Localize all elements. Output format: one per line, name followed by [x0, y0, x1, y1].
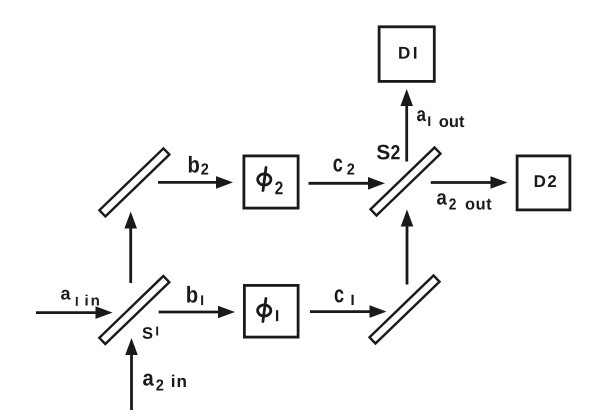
wire S1 to M1 vertical arrow	[124, 212, 137, 284]
detector D2 box	[517, 156, 570, 210]
label S1	[142, 327, 158, 339]
label b2	[189, 156, 208, 175]
label a2in	[143, 374, 186, 391]
wire a1in arrow into S1	[36, 306, 113, 319]
wire a2out arrow S2 to D2	[431, 176, 508, 189]
beam splitter S2 (top-right diagonal bar)	[371, 147, 441, 215]
label c2	[334, 158, 355, 174]
wire a1out arrow S2 to D1	[400, 89, 413, 162]
label a1in	[61, 290, 99, 306]
wire c2 arrow phi2 to S2	[309, 177, 386, 190]
wire b2 arrow M1 to phi2	[158, 176, 233, 189]
wire a2in arrow up into S1	[125, 338, 138, 410]
wire c1 arrow phi1 to M2	[310, 305, 387, 318]
phi1 symbol	[258, 305, 271, 316]
phi1 subscript 1	[276, 310, 278, 321]
label a1out	[417, 110, 464, 127]
detector D1 box	[379, 27, 434, 82]
label a2out	[437, 193, 491, 209]
phi2 symbol	[258, 174, 271, 185]
label S2	[377, 145, 400, 160]
wire M2 to S2 vertical arrow	[401, 210, 414, 285]
label b1	[187, 286, 203, 305]
wire b1 arrow S1 to phi1	[159, 306, 235, 319]
mirror M2 (bottom-right diagonal bar)	[370, 275, 440, 343]
beam splitter S1 (bottom-left diagonal bar)	[99, 276, 169, 344]
phi2 subscript 2	[275, 181, 282, 194]
phase shifter phi2 box	[244, 156, 298, 208]
label c1	[335, 289, 354, 305]
mirror M1 (top-left diagonal bar)	[99, 148, 169, 216]
phase shifter phi1 box	[244, 285, 298, 337]
